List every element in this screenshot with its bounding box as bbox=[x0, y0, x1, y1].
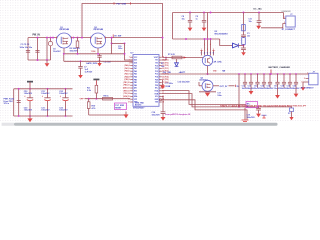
ground - C8 bbox=[188, 28, 193, 32]
capacitor C2 plates bbox=[35, 50, 39, 52]
wire - gate drive net bbox=[64, 53, 125, 55]
ground - C7 bbox=[78, 75, 83, 78]
svg-text:JP_CONNECT: JP_CONNECT bbox=[300, 88, 314, 90]
svg-text:C16: C16 bbox=[267, 85, 270, 87]
wire - regulator rail to diode D2 bbox=[220, 39, 233, 46]
wire - routing loop from node between Q1 and Q2 up over to regulator input bbox=[82, 4, 163, 58]
connector J2 USB body bbox=[286, 16, 295, 27]
transistor Q2 internal symbol bbox=[94, 37, 96, 44]
small ground bar right of C19 bbox=[262, 114, 267, 116]
svg-text:PW_IN: PW_IN bbox=[32, 35, 40, 37]
capacitor C7 lead bbox=[80, 61, 82, 66]
wire - U4 VOUT pin to regulator input row bbox=[162, 58, 166, 61]
capacitor C1 plates bbox=[26, 50, 30, 52]
ground - J3 pin3 bbox=[301, 87, 306, 90]
junction dot at main wire end bbox=[162, 37, 164, 39]
resistor R2 lead bottom bbox=[77, 48, 79, 54]
ic U4 right pin stubs bbox=[159, 56, 162, 58]
capacitor C17 lead bbox=[277, 74, 279, 82]
ground - battery column bbox=[241, 52, 246, 55]
svg-text:C21: C21 bbox=[41, 107, 44, 109]
svg-text:C10: C10 bbox=[118, 46, 121, 48]
svg-text:100n 10u 10u: 100n 10u 10u bbox=[20, 47, 33, 49]
svg-text:C12: C12 bbox=[242, 85, 245, 87]
net label 5V_SW with tick bbox=[112, 34, 114, 37]
svg-text:C20: C20 bbox=[24, 107, 27, 109]
svg-text:TGT_SWD: TGT_SWD bbox=[115, 105, 124, 107]
capacitor C14 plates bbox=[255, 81, 259, 83]
svg-text:RESET: RESET bbox=[115, 107, 122, 109]
ground - D4 bbox=[289, 117, 293, 120]
bus wire 2 to ESD branch bbox=[162, 94, 292, 108]
wire - battery rail into J3 pin1 bbox=[298, 73, 309, 75]
capacitor C12 plates bbox=[243, 81, 247, 83]
svg-text:100n/50V: 100n/50V bbox=[152, 115, 161, 117]
transistor Q3 body circle bbox=[202, 80, 213, 91]
wire - Q1 gate column down bbox=[63, 54, 65, 62]
ground - C18 bbox=[161, 117, 166, 121]
capacitor C14 stub bbox=[162, 80, 164, 86]
svg-text:F1: F1 bbox=[247, 33, 249, 35]
svg-text:BOOT0: BOOT0 bbox=[135, 105, 141, 107]
ic U4 body bbox=[133, 55, 159, 107]
capacitor C20 electrolytic bbox=[29, 89, 31, 98]
regulator U2 bottom lead bbox=[207, 66, 209, 74]
svg-text:C18: C18 bbox=[281, 85, 284, 87]
wire - battery charger label stub bbox=[270, 70, 272, 75]
svg-text:C19: C19 bbox=[247, 114, 250, 116]
regulator U2 internal symbol bbox=[204, 58, 206, 63]
svg-text:100u/16V: 100u/16V bbox=[59, 93, 68, 95]
junction dots battery bank top rail bbox=[18, 88, 20, 90]
wire - GATE_DRV net into U4 bbox=[64, 60, 133, 62]
capacitor C18 lead bbox=[283, 74, 285, 82]
junction dot left of Q1 bbox=[52, 37, 54, 39]
svg-text:12V in: 12V in bbox=[3, 103, 9, 105]
svg-text:C18: C18 bbox=[152, 112, 155, 114]
pad TGT_SWD magenta box bbox=[115, 103, 127, 110]
capacitor C6 on gate net bbox=[99, 54, 101, 56]
ground - C19 bbox=[256, 114, 261, 118]
transistor Q1 pin tick marks bbox=[56, 37, 58, 39]
esd diode D4 lead bbox=[291, 112, 293, 118]
junction dot bus/C19 bbox=[258, 106, 260, 108]
current sense arrow mark bbox=[184, 56, 187, 58]
resistor R4 leads bbox=[95, 93, 97, 99]
wire - J3 pin3 elbow to ground bbox=[303, 82, 309, 87]
capacitor C15 lead bbox=[263, 74, 265, 82]
junction dots battery bank bottom rail bbox=[18, 115, 20, 117]
svg-text:C19: C19 bbox=[287, 85, 290, 87]
capacitor C22 electrolytic bbox=[65, 89, 67, 98]
svg-text:C21: C21 bbox=[41, 91, 44, 93]
svg-text:C? 100n: C? 100n bbox=[166, 83, 174, 85]
ground - C11 bbox=[256, 26, 261, 29]
ground - Q3 wide bar bbox=[199, 91, 216, 93]
wire - battery column upper bbox=[243, 13, 245, 35]
svg-text:MIC29302WU: MIC29302WU bbox=[214, 33, 228, 35]
wire - ladder vertical right of Q2 bbox=[111, 38, 113, 54]
ground - C9 bbox=[202, 28, 207, 32]
resistor R10 body bbox=[88, 99, 90, 102]
transistor Q1 internal symbol bbox=[60, 37, 62, 44]
transistor Q1 body circle bbox=[57, 33, 72, 48]
transistor Q3 left lead bbox=[198, 82, 200, 86]
capacitor C8 lead bbox=[189, 13, 191, 21]
capacitor C21 electrolytic bbox=[47, 89, 49, 98]
wire - right rail left drop bbox=[172, 13, 174, 40]
wire - ladder cross wire bbox=[112, 42, 125, 44]
wire - main power rail into Q1 bbox=[28, 37, 57, 39]
wire - right power rail top bbox=[173, 12, 284, 14]
wire - rail into USB connector pin 1 bbox=[284, 13, 286, 19]
junction dot at loop tee bbox=[81, 37, 83, 39]
svg-text:OUT_5V: OUT_5V bbox=[220, 86, 228, 88]
capacitor C19 lead bbox=[289, 74, 291, 82]
wire - ladder branch down to U4 pin 1 bbox=[125, 43, 134, 60]
svg-text:10u/50V: 10u/50V bbox=[293, 88, 301, 90]
bus wire 1 to charger pad bbox=[162, 91, 246, 105]
resistor R11 body on input row bbox=[172, 56, 182, 59]
connector J3 pin2 stub bbox=[306, 78, 309, 80]
junction dot right of Q1 bbox=[72, 37, 74, 39]
capacitor C9 lead bbox=[203, 13, 205, 21]
wire - input bank left column bbox=[27, 38, 29, 60]
wire - battery bank top rail bbox=[14, 88, 73, 90]
capacitor C11 plates bbox=[257, 20, 262, 22]
regulator U2 pin outer-right bbox=[213, 51, 215, 56]
transistor Q3 source lead bbox=[207, 90, 209, 93]
junction dot on GATE_DRV at C7 bbox=[80, 60, 82, 62]
wire - battery charger rail bbox=[161, 73, 298, 75]
scrollbar thumb bbox=[14, 123, 278, 126]
svg-text:1uF/16V: 1uF/16V bbox=[85, 72, 93, 74]
svg-text:BT+: BT+ bbox=[247, 103, 250, 105]
capacitor C19 plates bbox=[288, 81, 292, 83]
wire - diode D2 to battery column bbox=[239, 45, 244, 47]
resistor R2 lead top bbox=[77, 38, 79, 41]
svg-text:10u/16V: 10u/16V bbox=[53, 51, 61, 53]
capacitor C9 plates bbox=[202, 19, 206, 21]
svg-text:C13: C13 bbox=[248, 85, 251, 87]
wire - battery bank left column bbox=[13, 89, 15, 116]
svg-text:C17: C17 bbox=[217, 93, 220, 95]
svg-text:C6 100n: C6 100n bbox=[103, 62, 111, 64]
capacitor C18 plates bbox=[161, 111, 166, 113]
diode D3 body bbox=[175, 63, 179, 67]
junction dot at R2 top bbox=[77, 37, 79, 39]
scrollbar track bbox=[0, 122, 320, 126]
wire - battery bank bottom rail bbox=[14, 115, 73, 117]
wire - input bank bottom rail bbox=[28, 59, 51, 61]
svg-text:VPP: VPP bbox=[80, 98, 85, 100]
net flag on Q3 output bbox=[235, 85, 237, 87]
svg-text:JP_CONNECT: JP_CONNECT bbox=[282, 29, 296, 31]
capacitor C7 plates bbox=[78, 66, 82, 68]
svg-text:C15 100n/50V: C15 100n/50V bbox=[177, 82, 190, 84]
junction dot charger sense column bbox=[238, 73, 240, 75]
wire - input bank middle column bbox=[37, 38, 39, 60]
junction dots on battery rail bbox=[244, 73, 246, 75]
svg-text:R? 0.05: R? 0.05 bbox=[168, 54, 175, 56]
capacitor C18 plates bbox=[282, 81, 286, 83]
capacitor C22 plates bbox=[17, 100, 21, 102]
ground - C6 bbox=[97, 63, 102, 66]
svg-text:5V_SW: 5V_SW bbox=[114, 35, 121, 37]
capacitor C8 plates bbox=[188, 19, 192, 21]
svg-text:C15: C15 bbox=[261, 85, 264, 87]
wire - Q3 output continuation bbox=[229, 85, 235, 87]
transistor Q2 body circle bbox=[91, 33, 106, 48]
ground - battery caps group 2 bbox=[277, 88, 279, 95]
capacitor C5 polarized body bbox=[48, 41, 52, 45]
junction dots on gate net bbox=[77, 53, 79, 55]
svg-text:C1 C2 C3: C1 C2 C3 bbox=[21, 44, 31, 46]
transistor Q1 gate lead bbox=[63, 48, 65, 54]
bus wire 3 to ground branch bbox=[162, 100, 248, 120]
no-connect circle at bus wire 3 start bbox=[160, 99, 162, 101]
capacitor C15 plates bbox=[262, 81, 266, 83]
capacitor C16 lead bbox=[269, 74, 271, 82]
power flag above R4 bbox=[93, 79, 99, 81]
capacitor C11 lead bbox=[258, 13, 260, 21]
fuse F1 upper body bbox=[242, 25, 246, 31]
capacitor C19 plates bbox=[256, 107, 261, 109]
svg-text:VUSB: VUSB bbox=[165, 86, 171, 88]
svg-text:100u/16V: 100u/16V bbox=[24, 93, 33, 95]
svg-text:C9: C9 bbox=[195, 16, 197, 18]
svg-text:C20: C20 bbox=[293, 85, 296, 87]
wire - segment between Q1 and Q2 bbox=[72, 37, 91, 39]
esd diode D4 body bbox=[290, 108, 294, 112]
wire - elbow into USB connector pin 2 bbox=[261, 24, 286, 28]
regulator U2 body circle bbox=[202, 55, 212, 65]
resistor R9 horizontal body bbox=[103, 97, 113, 100]
wire - R10 to ground bbox=[89, 114, 126, 116]
wire - regulator top rail bbox=[173, 38, 220, 40]
junction dots on right power rail bbox=[189, 12, 191, 14]
power flag +BATT bbox=[29, 85, 31, 89]
svg-text:10u/50V: 10u/50V bbox=[267, 88, 275, 90]
wire - input bank right column bbox=[46, 38, 48, 60]
transistor Q2 gate lead bbox=[97, 48, 99, 54]
svg-text:From PSU: From PSU bbox=[3, 101, 13, 103]
ground - input bank bbox=[46, 60, 48, 63]
capacitor C20 lead bbox=[295, 74, 297, 82]
capacitor plates battery column lower bbox=[243, 46, 245, 48]
wire - charger sense down to bus bbox=[238, 74, 240, 107]
svg-text:100n/50V: 100n/50V bbox=[70, 50, 79, 52]
svg-text:C20: C20 bbox=[24, 91, 27, 93]
ground - R10 net bbox=[125, 112, 127, 115]
svg-text:C22: C22 bbox=[59, 91, 62, 93]
ground - battery caps group 1 bbox=[250, 88, 252, 91]
regulator U2 pin up left bbox=[204, 39, 206, 55]
svg-text:C11: C11 bbox=[249, 19, 252, 21]
ic U4 left pin stubs bbox=[130, 56, 133, 58]
transistor Q3 internal symbol bbox=[204, 83, 206, 88]
fuse F1 body bbox=[242, 38, 246, 45]
junction dots input bank bbox=[37, 37, 39, 39]
resistor R4 body bbox=[95, 85, 98, 93]
svg-text:100u/16V: 100u/16V bbox=[41, 110, 50, 112]
capacitor C13 plates bbox=[249, 81, 253, 83]
svg-text:C22: C22 bbox=[59, 107, 62, 109]
net input arrow at U4 right pin bbox=[162, 85, 164, 87]
svg-text:C17: C17 bbox=[274, 85, 277, 87]
wire - U4 pin to C18 bbox=[162, 96, 163, 111]
svg-text:P5V_USB: P5V_USB bbox=[117, 3, 127, 5]
junction dot VPP and R4 bbox=[95, 98, 97, 100]
svg-text:100u/16V: 100u/16V bbox=[59, 110, 68, 112]
regulator U2 pin outer-left bbox=[201, 51, 203, 56]
capacitor plates battery column upper bbox=[241, 34, 246, 36]
capacitor C12 lead bbox=[244, 74, 246, 82]
diode D2 body bbox=[233, 43, 239, 48]
wire - regulator input row bbox=[163, 57, 206, 59]
transistor Q2 pin tick marks bbox=[90, 37, 92, 39]
capacitor C14 lead bbox=[257, 74, 259, 82]
svg-text:100u/16V: 100u/16V bbox=[41, 93, 50, 95]
capacitor C13 lead bbox=[250, 74, 252, 82]
junction dot R10 top bbox=[88, 98, 90, 100]
svg-text:3V3_SW: 3V3_SW bbox=[162, 72, 170, 74]
svg-text:100u/16V: 100u/16V bbox=[24, 110, 33, 112]
svg-text:Q3: Q3 bbox=[201, 77, 204, 79]
ground - C14 bbox=[160, 85, 165, 89]
net label tick marks bbox=[113, 2, 115, 4]
regulator U2 pin up right bbox=[210, 39, 212, 55]
ground - battery caps group 3 bbox=[295, 88, 297, 94]
wire - battery bank column 2 bbox=[18, 89, 20, 116]
junction dots on regulator rail bbox=[185, 38, 187, 40]
pad battery magenta box bbox=[246, 102, 258, 108]
svg-text:100n/50V: 100n/50V bbox=[247, 117, 256, 119]
ground - pad box 3-bar bbox=[242, 119, 249, 121]
wire - VPP net into U4 bbox=[85, 98, 131, 100]
svg-text:C8: C8 bbox=[182, 16, 184, 18]
transistor Q3 right lead bbox=[213, 85, 219, 87]
ground - battery bank bbox=[29, 116, 31, 118]
capacitor C20 plates bbox=[294, 81, 298, 83]
connector J3 body bbox=[309, 73, 318, 85]
diode D3 lead bbox=[176, 59, 178, 63]
capacitor C17 plates bbox=[275, 81, 279, 83]
capacitor C16 plates bbox=[268, 81, 272, 83]
resistor R2 body bbox=[76, 41, 79, 48]
wire - U2 center pin up to power rail bbox=[207, 13, 209, 56]
capacitor C19 lead bbox=[258, 107, 260, 108]
wire - pad box down bbox=[244, 108, 246, 120]
wire - segment from Q2 to loop corner bbox=[106, 37, 163, 39]
capacitor C5 leads bbox=[50, 38, 52, 42]
